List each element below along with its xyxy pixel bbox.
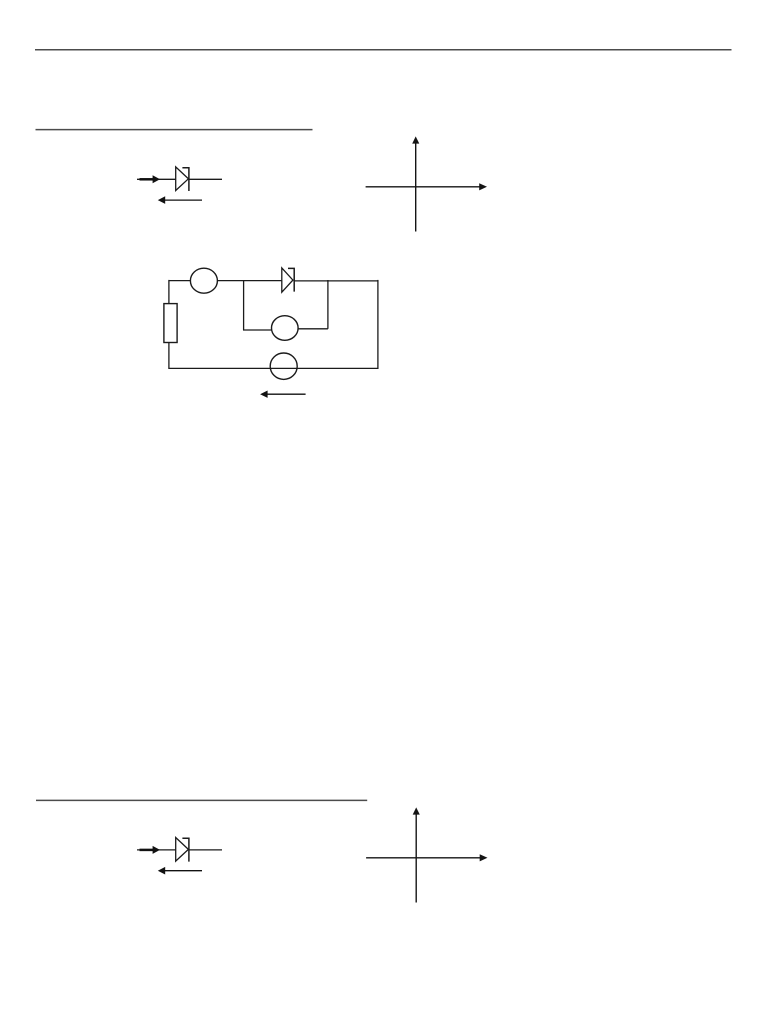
meter circle (middle branch voltmeter) — [272, 316, 299, 341]
reverse current arrow under D3 — [158, 867, 202, 875]
wire (left branch upper) — [168, 280, 170, 304]
reverse current arrow under D1 — [158, 196, 202, 204]
wire (circuit right side) — [377, 280, 379, 369]
section 1 title underline — [36, 129, 313, 131]
diode D2 in circuit — [282, 268, 294, 292]
wire (anode lead of diode D1) — [137, 178, 176, 180]
I-V graph horizontal axis (section 1) — [366, 183, 487, 190]
wire (cathode lead of diode D1) — [189, 178, 222, 180]
section 2 title underline — [36, 799, 367, 801]
I-V graph vertical axis (section 2) — [413, 807, 420, 902]
I-V graph vertical axis (section 1) — [412, 136, 419, 231]
wire (circuit top, middle segment to diode D2 anode) — [218, 280, 282, 282]
header rule — [35, 49, 732, 51]
wire (cathode lead of diode D3) — [189, 849, 222, 851]
current direction arrow (forward, into D1) — [140, 175, 161, 183]
resistor R (rectangle) — [164, 304, 177, 343]
current direction arrow (forward, into D3) — [140, 846, 161, 854]
source circle on bottom wire — [270, 353, 297, 379]
circuit current direction arrow (below bottom wire) — [260, 391, 306, 398]
wire (circuit top, left segment) — [169, 280, 191, 282]
wire (circuit bottom) — [169, 367, 378, 369]
wire (anode lead of diode D3) — [137, 849, 176, 851]
meter circle (top left source/ammeter) — [190, 268, 217, 293]
I-V graph horizontal axis (section 2) — [366, 854, 487, 861]
wire (parallel branch, right stub) — [327, 280, 329, 329]
diode D1 symbol — [176, 167, 189, 191]
diode D3 symbol — [176, 838, 189, 862]
wire (parallel branch, left stub) — [243, 281, 245, 330]
wire (parallel branch, right horizontal) — [298, 328, 328, 330]
wire (parallel branch, left horizontal) — [243, 329, 272, 331]
wire (circuit top, segment from diode D2 cathode) — [294, 280, 378, 282]
wire (left branch lower) — [168, 343, 170, 370]
